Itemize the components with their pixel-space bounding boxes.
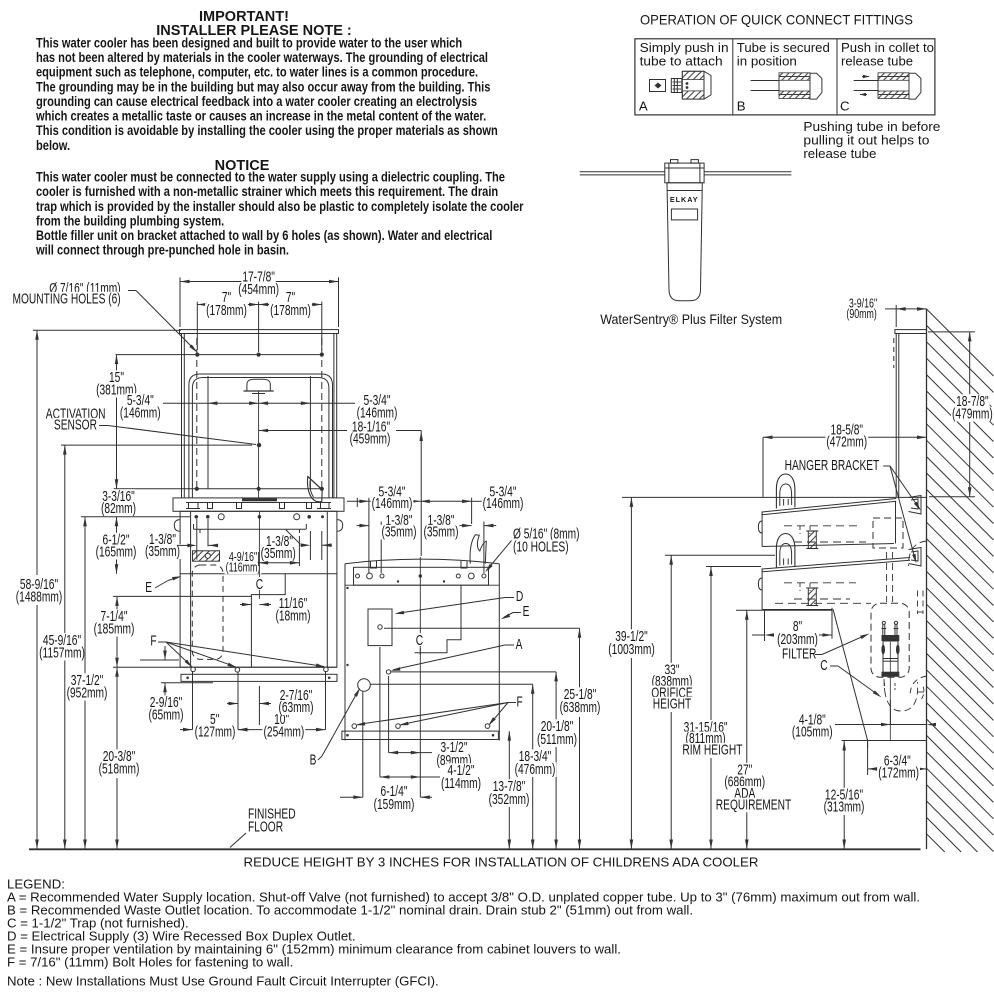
lower mounting holes row — [114, 487, 324, 491]
dim 4-1/2 114mm — [380, 647, 482, 792]
dim 25-1/8 638mm — [384, 628, 601, 849]
svg-text:(459mm): (459mm) — [350, 431, 391, 448]
label activation sensor — [45, 406, 256, 445]
dim 58-9/16 1488mm — [15, 330, 181, 849]
cooler side bump left — [174, 520, 180, 532]
svg-text:equipment such as telephone, c: equipment such as telephone, computer, e… — [36, 65, 478, 80]
pipe leader diagonal — [833, 609, 868, 740]
svg-text:release tube: release tube — [803, 146, 876, 161]
middle centerline — [419, 557, 421, 741]
svg-text:ELKAY: ELKAY — [670, 195, 699, 204]
dim 7-1/4 185mm — [93, 596, 251, 667]
dim 11/16 18mm — [240, 595, 312, 625]
cabinet separation line — [180, 573, 337, 575]
bottle filler spout — [244, 379, 274, 393]
middle centerline symbol — [415, 632, 424, 655]
svg-text:(479mm): (479mm) — [952, 406, 993, 423]
svg-text:(116mm): (116mm) — [226, 560, 261, 575]
svg-text:C: C — [820, 657, 828, 674]
svg-text:(35mm): (35mm) — [381, 524, 416, 541]
svg-text:(638mm): (638mm) — [560, 699, 601, 716]
svg-text:(1157mm): (1157mm) — [39, 645, 85, 662]
svg-text:below.: below. — [36, 138, 70, 153]
front centerline symbol — [255, 511, 264, 599]
paragraph installer note — [35, 36, 498, 153]
svg-text:This condition is avoidable by: This condition is avoidable by installin… — [36, 123, 498, 138]
dim 4-9/16 116mm — [225, 536, 300, 575]
dim 1-3/8 35mm front right — [260, 530, 332, 562]
rear bubbler silhouette — [470, 535, 486, 564]
svg-text:(352mm): (352mm) — [489, 791, 530, 808]
svg-text:(178mm): (178mm) — [206, 302, 247, 319]
hanger bracket lower — [909, 548, 922, 567]
svg-text:(35mm): (35mm) — [261, 545, 296, 562]
front F label and leaders — [149, 633, 325, 670]
dim 4-1/8 105mm — [791, 700, 936, 740]
legend block — [7, 877, 920, 989]
label FILTER leader — [781, 632, 870, 663]
dashed pipe risers to filter — [775, 552, 893, 603]
electrical box D — [368, 609, 392, 646]
front view alcove panel — [189, 374, 333, 498]
fitting illustration A — [650, 71, 712, 99]
svg-text:FILTER: FILTER — [782, 646, 817, 663]
svg-text:Note : New Installations Must: Note : New Installations Must Use Ground… — [7, 974, 439, 989]
dim 6-1/2 165mm — [95, 521, 138, 574]
svg-text:(185mm): (185mm) — [94, 621, 135, 638]
svg-text:from the building plumbing sys: from the building plumbing system. — [36, 214, 224, 229]
upper cooler side profile — [758, 474, 896, 547]
svg-text:Bottle filler unit on bracket: Bottle filler unit on bracket attached t… — [36, 228, 492, 243]
electrical outlet hatched box — [193, 551, 220, 561]
dim 45-9/16 1157mm — [38, 445, 252, 849]
svg-text:(18mm): (18mm) — [275, 608, 310, 625]
svg-text:SENSOR: SENSOR — [54, 417, 97, 434]
svg-text:This water cooler has been des: This water cooler has been designed and … — [36, 36, 462, 51]
svg-text:(313mm): (313mm) — [824, 799, 865, 816]
svg-text:(159mm): (159mm) — [374, 796, 415, 813]
label B leader — [309, 687, 362, 769]
svg-text:FLOOR: FLOOR — [248, 819, 283, 836]
dim 15inch 381mm — [95, 355, 138, 489]
front centerline upper — [258, 391, 260, 498]
side view filler cap — [895, 330, 927, 334]
svg-text:(82mm): (82mm) — [101, 500, 136, 517]
dim 8inch 203mm — [752, 608, 832, 648]
svg-text:The grounding may be in the bu: The grounding may be in the building but… — [36, 79, 490, 94]
dim 6-3/4 172mm — [868, 741, 927, 782]
label hanger bracket — [784, 457, 923, 564]
svg-text:MOUNTING HOLES (6): MOUNTING HOLES (6) — [13, 291, 121, 308]
plate bottom band — [342, 731, 499, 739]
svg-text:(65mm): (65mm) — [148, 707, 183, 724]
svg-text:(178mm): (178mm) — [270, 302, 311, 319]
dim 18-5/8 472mm — [763, 422, 927, 498]
side view filler front — [894, 334, 899, 498]
filter assembly side — [881, 621, 899, 690]
dim 2-9/16 65mm — [140, 646, 213, 724]
svg-text:(63mm): (63mm) — [278, 699, 313, 716]
top band holes 10x — [356, 573, 486, 583]
svg-text:(90mm): (90mm) — [846, 306, 876, 321]
cell text push in collet — [841, 40, 934, 68]
dim 27 ada requirement — [715, 610, 832, 849]
fitting illustration B — [751, 73, 822, 99]
bolt holes F middle — [352, 724, 490, 729]
svg-text:B: B — [737, 99, 746, 114]
svg-text:(1003mm): (1003mm) — [608, 641, 655, 658]
svg-text:A: A — [639, 99, 648, 114]
filter cartridge body — [667, 183, 702, 301]
alcove inner vertical lines — [208, 376, 310, 489]
dim 1-3/8 35mm front left — [144, 519, 218, 560]
svg-text:WaterSentry® Plus Filter Syste: WaterSentry® Plus Filter System — [600, 312, 782, 327]
svg-text:(114mm): (114mm) — [441, 775, 481, 792]
label finished floor — [230, 806, 297, 848]
filter enclosure dashed — [871, 603, 909, 677]
svg-text:(952mm): (952mm) — [67, 685, 108, 702]
caption pushing tube in before — [803, 119, 940, 161]
cooler bottom line — [180, 666, 337, 668]
dim 5-3/4 alcove right — [259, 392, 399, 422]
lower cooler side profile — [758, 534, 910, 610]
dim 1-3/8 35mm middle right pair — [422, 512, 496, 573]
filter head — [665, 160, 704, 183]
drain stub lines — [842, 741, 927, 749]
bolt holes F front — [191, 667, 328, 672]
label C trap leader — [819, 657, 882, 699]
svg-text:will connect through pre-punch: will connect through pre-punched hole in… — [35, 243, 289, 258]
svg-text:(511mm): (511mm) — [537, 731, 577, 748]
dim 1-3/8 35mm middle left pair — [357, 512, 418, 573]
cooler apron band — [181, 674, 337, 681]
cooler body front — [180, 511, 337, 667]
dim 3-9/16 90mm — [845, 296, 926, 328]
quick connect table frame — [635, 39, 935, 115]
svg-text:REQUIREMENT: REQUIREMENT — [716, 796, 791, 813]
cell text simply push in — [640, 40, 729, 68]
basin hook tabs — [189, 503, 330, 509]
front bubbler — [307, 477, 322, 502]
dim 39-1/2 1003mm — [607, 497, 926, 849]
dim 12-5/16 313mm — [823, 741, 866, 849]
label E leader — [500, 603, 530, 621]
cooler side bump right — [337, 520, 343, 532]
middle view plate outline — [345, 559, 499, 740]
dim 18-7/8 479mm — [928, 332, 994, 497]
dim 5-3/4 146mm middle right — [420, 484, 524, 525]
svg-text:F = 7/16" (11mm) Bolt Holes fo: F = 7/16" (11mm) Bolt Holes for fastenin… — [7, 955, 293, 970]
cell text tube is secured — [737, 40, 830, 68]
svg-text:HEIGHT: HEIGHT — [653, 696, 692, 713]
front view cabinet top cap — [180, 330, 339, 334]
wall hatching — [927, 309, 994, 852]
wall supply stub dashed — [918, 591, 924, 615]
lower cooler internals dashed — [784, 583, 856, 606]
svg-text:tube to attach: tube to attach — [640, 53, 723, 68]
svg-text:E: E — [145, 579, 152, 596]
dim 31-15/16 rim height — [681, 567, 761, 850]
cooler basin band — [173, 498, 344, 511]
svg-text:(454mm): (454mm) — [238, 281, 279, 298]
dim 5-3/4 146mm middle left — [347, 484, 420, 574]
svg-text:(146mm): (146mm) — [120, 405, 161, 422]
svg-text:(105mm): (105mm) — [792, 723, 833, 740]
drain hole B — [358, 679, 371, 692]
hole A water supply — [386, 670, 390, 674]
fitting illustration C — [854, 73, 921, 99]
svg-text:C: C — [840, 99, 850, 114]
svg-text:B: B — [310, 752, 317, 769]
svg-text:OPERATION OF QUICK CONNECT FIT: OPERATION OF QUICK CONNECT FITTINGS — [640, 12, 913, 27]
svg-text:F: F — [150, 633, 156, 650]
dim 6-1/4 159mm — [340, 691, 432, 813]
svg-text:cooler is furnished with a non: cooler is furnished with a non-metallic … — [36, 184, 498, 199]
upper mounting holes row — [116, 353, 324, 357]
basin drain grille — [242, 498, 277, 501]
dim 2-7/16 63mm — [227, 686, 315, 725]
plate side dots — [346, 587, 348, 666]
middle panel step outline — [415, 585, 461, 653]
dim 10inch 254mm — [238, 671, 326, 740]
plate top notches — [371, 561, 468, 568]
hanger bracket upper — [909, 496, 922, 515]
svg-text:REDUCE HEIGHT BY 3 INCHES FOR: REDUCE HEIGHT BY 3 INCHES FOR INSTALLATI… — [244, 855, 759, 870]
dim 5-3/4 alcove left — [119, 392, 259, 422]
svg-text:(472mm): (472mm) — [826, 434, 867, 451]
svg-text:(172mm): (172mm) — [878, 765, 919, 782]
cooler mounting holes row — [195, 514, 325, 520]
svg-text:(10 HOLES): (10 HOLES) — [513, 539, 569, 556]
svg-text:(35mm): (35mm) — [145, 543, 180, 560]
wall line — [926, 309, 928, 849]
dim 5inch 127mm — [180, 671, 249, 740]
dim 17-7/8 454mm — [180, 269, 339, 328]
svg-text:grounding can cause electrical: grounding can cause electrical feedback … — [36, 94, 477, 109]
label 5/16 10 holes — [484, 526, 581, 574]
upper cooler internals dashed — [784, 518, 903, 549]
dim 20-3/8 518mm — [98, 667, 180, 849]
dim 3-1/2 89mm — [389, 676, 473, 769]
dashed mounting hole columns — [197, 338, 322, 489]
dim 3-3/16 82mm — [100, 488, 137, 526]
finished floor line — [29, 848, 921, 850]
title IMPORTANT INSTALLER PLEASE NOTE — [156, 9, 352, 39]
svg-text:(127mm): (127mm) — [195, 723, 236, 740]
svg-text:(254mm): (254mm) — [264, 723, 305, 740]
svg-text:(518mm): (518mm) — [99, 761, 140, 778]
svg-text:HANGER BRACKET: HANGER BRACKET — [785, 457, 880, 474]
louver dashed outline — [192, 565, 223, 659]
svg-text:(1488mm): (1488mm) — [16, 589, 63, 606]
label D leader — [394, 588, 524, 616]
svg-text:release tube: release tube — [841, 53, 913, 68]
front view cabinet sides — [182, 334, 337, 498]
label A leader — [390, 636, 523, 673]
plate top band — [345, 567, 499, 585]
dim 37-1/2 952mm — [66, 517, 190, 849]
dim 20-1/8 511mm — [391, 672, 578, 849]
bracket strip line — [194, 524, 307, 533]
svg-text:(146mm): (146mm) — [483, 495, 524, 512]
svg-text:in position: in position — [737, 53, 797, 68]
label F leader middle — [355, 694, 523, 728]
svg-text:(146mm): (146mm) — [372, 495, 413, 512]
dim 18-1/16 459mm — [259, 419, 423, 557]
supply pipe from wall dashed — [908, 541, 926, 566]
filter drain centerline — [889, 642, 891, 741]
panel step outline — [251, 574, 285, 667]
svg-text:trap which is provided by the: trap which is provided by the installer … — [36, 199, 524, 214]
svg-text:which creates a metallic taste: which creates a metallic taste or causes… — [35, 109, 486, 124]
svg-text:E: E — [523, 603, 530, 620]
svg-text:A: A — [516, 636, 523, 653]
label E front view — [144, 575, 182, 596]
trap dashed — [884, 676, 927, 711]
label mounting holes 6x — [12, 280, 199, 354]
paragraph notice — [35, 170, 524, 258]
dim 13-7/8 352mm — [488, 731, 531, 849]
svg-text:(165mm): (165mm) — [96, 544, 137, 561]
activation sensor dot — [257, 443, 261, 447]
svg-text:(35mm): (35mm) — [423, 524, 458, 541]
svg-text:(476mm): (476mm) — [515, 761, 556, 778]
svg-text:F: F — [517, 694, 523, 711]
svg-text:has not been altered by materi: has not been altered by materials in the… — [36, 50, 488, 65]
dim 33 orifice height — [650, 555, 775, 849]
svg-text:RIM HEIGHT: RIM HEIGHT — [682, 742, 742, 759]
svg-text:C: C — [416, 632, 424, 649]
svg-text:This water cooler must be conn: This water cooler must be connected to t… — [36, 170, 505, 185]
filter tube line — [580, 172, 792, 175]
dim 7inch left and right — [197, 289, 321, 352]
dim 18-3/4 476mm — [370, 684, 556, 849]
